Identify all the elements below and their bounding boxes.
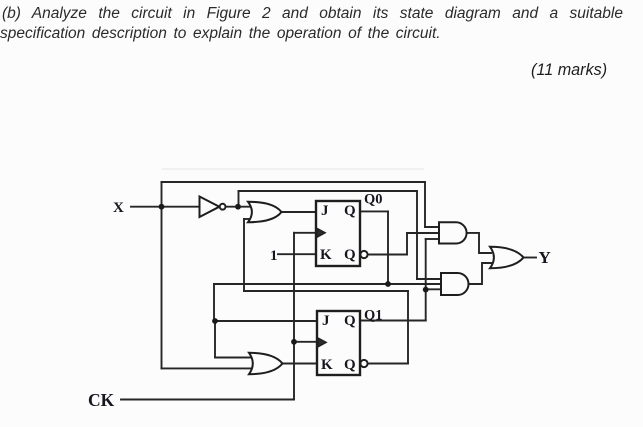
U1 Q' bubble [360, 251, 367, 258]
wire clock stub to U1 [294, 232, 316, 234]
wire OR2 input-2 stub (X) [162, 367, 252, 369]
and-gate AND1 (top output gate) [439, 222, 467, 243]
ghost scan artifact line [162, 168, 424, 170]
wire OR2 input-1 stub [215, 357, 253, 359]
wire OR1 input-2 riser [243, 219, 245, 291]
wire X input lead [131, 206, 162, 208]
wire J of U2 input line [214, 320, 317, 322]
svg-text:K: K [321, 357, 333, 373]
wire AND2 output [469, 263, 492, 284]
svg-text:Q: Q [344, 313, 356, 329]
wire Q0 output lead [360, 210, 388, 212]
wire Q1' horizontal run [244, 290, 408, 292]
junction node: Q0 onto run [385, 281, 391, 287]
U2 clock triangle [318, 338, 326, 346]
wire X to inverter [162, 206, 200, 208]
inverter (NOT gate) [200, 197, 220, 218]
wire Q0 horizontal run to AND2 input-2 [214, 283, 442, 285]
wire inverter output to OR1 input-1 [226, 206, 251, 208]
wire OR2 output to K of U2 [282, 363, 317, 365]
svg-text:K: K [320, 247, 332, 263]
svg-text:Q1: Q1 [364, 308, 383, 324]
wire X descent to AND1 [424, 182, 426, 227]
wire AND1 input-1 stub (X) [425, 226, 440, 228]
wire X top feedback run [162, 181, 426, 183]
junction node: Q1 riser branch [423, 287, 429, 293]
wire Q0 left descent [213, 284, 215, 321]
wire AND2 input-1 stub (X') [417, 278, 441, 280]
wire CK horizontal [121, 399, 294, 401]
wire AND1 input-2 (Q0') [407, 232, 439, 234]
wire Q0' lead from bubble [368, 254, 408, 256]
svg-text:X: X [113, 200, 124, 216]
or-gate OR2 (feeds K of U2) [249, 353, 283, 374]
wire OR2 input-1 riser [214, 321, 216, 358]
wire Q1' lead from bubble [368, 363, 409, 365]
wire clock stub to U2 [294, 341, 317, 343]
wire AND1 output [467, 233, 492, 253]
wire OR1 output to J of U1 [282, 211, 316, 213]
wire Q1 riser [425, 239, 427, 321]
wire CK riser [293, 233, 295, 400]
svg-text:1: 1 [270, 248, 278, 264]
svg-text:J: J [322, 313, 330, 329]
svg-text:Q: Q [344, 247, 356, 263]
and-gate AND2 (bottom output gate) [441, 273, 469, 295]
wire Q0 descent [387, 211, 389, 284]
junction node: X branch [159, 204, 165, 210]
U2 Q' bubble [360, 360, 367, 367]
svg-text:Y: Y [539, 248, 551, 267]
or-gate OR3 (output Y) [490, 247, 524, 268]
flip-flop U1 box (Q0) [316, 201, 360, 266]
wire X' descent to AND2 [416, 191, 418, 279]
junction node: inverter output [235, 204, 241, 210]
junction node: clock branch [291, 339, 297, 345]
wire OR1 input-2 stub [244, 218, 253, 220]
wire X' riser [238, 191, 240, 207]
junction node: J of U2 branch [212, 318, 218, 324]
wire AND2 input-3 stub (Q1) [426, 288, 442, 290]
svg-text:CK: CK [88, 390, 115, 410]
wire X' top feedback run [239, 190, 418, 192]
wire X descent to OR2 [161, 207, 163, 369]
svg-text:Q: Q [344, 357, 356, 373]
wire Q1' riser [407, 291, 409, 364]
wire OR3 output to Y [523, 257, 536, 259]
wire Q0' riser [406, 233, 408, 255]
wire AND1 input-3 stub (Q1) [426, 238, 439, 240]
or-gate OR1 (feeds J of U1) [248, 202, 282, 222]
svg-text:Q: Q [344, 203, 356, 219]
wire X riser to top feedback [161, 182, 163, 207]
wire constant 1 to K of U1 [278, 253, 316, 255]
flip-flop U2 box (Q1) [317, 311, 360, 375]
U1 clock triangle [317, 229, 325, 237]
svg-text:Q0: Q0 [364, 192, 383, 208]
wire Q1 output lead [360, 320, 426, 322]
svg-text:J: J [321, 203, 329, 219]
